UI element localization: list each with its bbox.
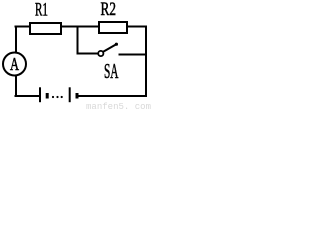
battery plate short 2 bbox=[76, 93, 79, 99]
battery plate short 1 bbox=[46, 93, 49, 99]
wire bottom left (corner to battery) bbox=[15, 95, 40, 97]
switch SA lever tip bbox=[115, 43, 118, 46]
wire branch vertical (node between R1 and R2 down to switch) bbox=[77, 26, 79, 55]
resistor R1 bbox=[30, 23, 61, 34]
wire top (left corner to right corner) bbox=[15, 26, 147, 28]
svg-text:manfen5. com: manfen5. com bbox=[86, 101, 151, 111]
svg-text:R2: R2 bbox=[101, 0, 117, 20]
wire switch left stub bbox=[77, 53, 98, 55]
svg-text:SA: SA bbox=[104, 59, 119, 83]
wire bottom right (battery to right corner) bbox=[78, 95, 148, 97]
wire left lower (ammeter to bottom corner) bbox=[15, 75, 17, 97]
resistor R2 bbox=[99, 22, 127, 33]
battery plate long 2 bbox=[69, 87, 71, 102]
svg-text:R1: R1 bbox=[35, 0, 48, 21]
switch SA lever bbox=[103, 44, 116, 52]
wire left (top corner down to ammeter) bbox=[15, 26, 17, 54]
battery dots bbox=[52, 96, 54, 98]
switch SA pivot bbox=[98, 51, 103, 56]
svg-text:A: A bbox=[10, 54, 19, 74]
wire switch right stub bbox=[119, 54, 147, 56]
battery plate long 1 bbox=[39, 87, 41, 102]
background bbox=[0, 0, 152, 111]
ammeter A1 bbox=[3, 53, 26, 76]
wire right (top corner to bottom corner) bbox=[145, 26, 147, 98]
